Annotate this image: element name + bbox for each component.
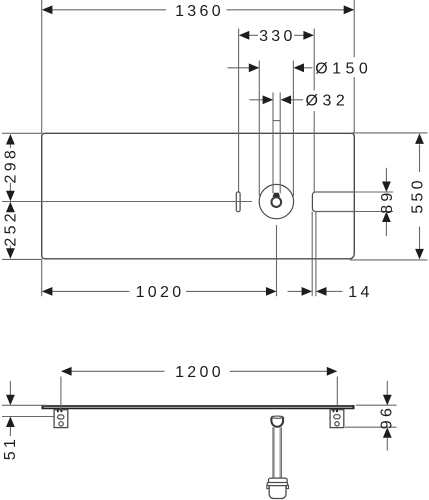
trap flange (267, 483, 287, 486)
dimension 89 extension top (315, 191, 393, 193)
console plate left tip (42, 405, 44, 409)
drain outlet rim (271, 416, 283, 418)
dimension 1360 extension right (353, 0, 355, 57)
dimension 330 arrow right (303, 31, 314, 40)
wall bracket right (330, 410, 344, 428)
console plate (42, 406, 353, 408)
dimension 51 extension top (2, 404, 47, 406)
dimension 1360 arrow right (344, 5, 355, 14)
svg-text:1200: 1200 (175, 364, 224, 381)
extension line bottom-left (2, 258, 42, 260)
dimension 51 extension bottom (2, 416, 54, 418)
trap slip nut (268, 478, 287, 483)
extension line top-right (352, 132, 428, 134)
svg-text:Ø32: Ø32 (306, 93, 350, 110)
trap ear right (286, 485, 288, 488)
dimension 252 label (2, 210, 19, 247)
inner partition line above slot (313, 29, 315, 91)
dimension 298 label (2, 147, 19, 184)
dimension 1020 arrow left (42, 287, 53, 296)
dimension 550 label (410, 177, 427, 214)
svg-text:96: 96 (378, 405, 395, 429)
svg-text:1020: 1020 (136, 284, 185, 301)
dimension 550 arrow top (415, 133, 424, 144)
dimension 330 extension left (238, 29, 240, 192)
basin top-view outline (42, 133, 355, 258)
dimension 89 tail bottom (385, 222, 387, 236)
dimension 89 label (379, 189, 396, 213)
dimension 550 line upper (419, 145, 421, 173)
svg-text:51: 51 (2, 436, 19, 460)
dimension 96 extension bottom (345, 426, 397, 428)
dimension 51 tail bottom (9, 427, 11, 436)
dimension 252 line lower (9, 246, 11, 249)
bracket right round hole (335, 422, 339, 426)
dimension D150 arrow left (249, 63, 259, 72)
dimension 1200 extension right (336, 377, 338, 406)
dimension 1200 extension left (60, 377, 62, 410)
svg-text:298: 298 (2, 147, 19, 184)
dimension 89 arrow top (382, 182, 391, 193)
wall bracket left (54, 410, 68, 428)
extension line top-left (2, 132, 42, 134)
dimension 89 extension bottom (315, 211, 393, 213)
overflow channel left wall (272, 93, 274, 194)
svg-text:550: 550 (410, 177, 427, 214)
bracket left screws (57, 409, 59, 412)
dimension 96 arrow top (383, 395, 392, 406)
dimension 550 arrow bottom (415, 249, 424, 260)
dimension 1360 extension left (41, 0, 43, 133)
svg-text:330: 330 (259, 28, 296, 45)
bracket left oblong hole (58, 415, 64, 419)
bracket right screws (333, 409, 335, 412)
bracket right oblong hole (334, 415, 340, 419)
dimension 14 arrow left (302, 287, 313, 296)
dimension 252 arrow bottom (6, 248, 15, 258)
dimension D150 extension left (258, 61, 260, 197)
dimension 550 line lower (419, 227, 421, 250)
dimension 96 label (378, 405, 395, 429)
dimension 1200 arrow right (327, 367, 338, 376)
dimension 89 tail top (385, 168, 387, 182)
dimension D150 tail left (228, 67, 250, 69)
overflow notch top (273, 120, 280, 122)
dimension 1020 arrow right (266, 287, 277, 296)
bracket left round hole (59, 422, 63, 426)
inner partition line pair below slot (right) (315, 212, 317, 297)
dimension 96 tail top (386, 381, 388, 396)
tail pipe highlight lines (274, 427, 276, 478)
dimension D32 tail right (291, 99, 303, 101)
dimension 1020 line (43, 290, 130, 292)
dimension 96 tail bottom (386, 438, 388, 451)
dimension 298/252 double arrow middle (6, 191, 15, 202)
overflow channel right wall (279, 93, 281, 194)
dimension D32 arrow left (263, 95, 274, 104)
dimension 1020 extension right (drain centre) (276, 225, 278, 296)
dimension D150 arrow right (294, 63, 305, 72)
shelf recess slot (312, 192, 354, 212)
svg-text:1360: 1360 (175, 3, 224, 20)
dimension 96 extension top (356, 404, 397, 406)
dimension 51 label (2, 436, 19, 460)
svg-text:14: 14 (348, 284, 372, 301)
drain outlet cup (271, 417, 283, 427)
dimension 14 tail right (327, 290, 343, 292)
dimension D32 tail left (249, 99, 264, 101)
dimension D150 extension right (292, 61, 294, 197)
dimension 1200 arrow left (61, 367, 72, 376)
extension line bottom-right (350, 259, 428, 261)
svg-text:89: 89 (379, 189, 396, 213)
dimension 1360 arrow left (42, 5, 53, 14)
dimension 89 arrow bottom (382, 212, 391, 223)
dimension 298/252 line upper (9, 144, 11, 148)
svg-text:252: 252 (2, 210, 19, 247)
dimension 14 tail left (288, 290, 302, 292)
trap ear left (267, 485, 269, 488)
dimension 330 line (249, 34, 258, 36)
dimension 14 arrow right (316, 287, 327, 296)
dimension 330 arrow left (239, 31, 250, 40)
dimension 298 arrow top (6, 134, 15, 145)
drain circle Ø150 (259, 184, 293, 218)
trap cup (269, 486, 286, 499)
dimension 51 arrow top (6, 395, 15, 406)
drain ring Ø32 (271, 197, 281, 207)
dimension 96 arrow bottom (383, 427, 392, 438)
dimension 51 tail top (9, 381, 11, 396)
tail pipe right wall (280, 427, 282, 478)
dimension 51 arrow bottom (6, 417, 15, 428)
tail pipe left wall (272, 427, 274, 478)
dimension 1020 extension left (41, 259, 43, 296)
faucet hole slot (236, 192, 240, 212)
centre reference line (2, 201, 252, 203)
inner partition line pair below slot (left) (311, 212, 313, 297)
overflow spout wedge (272, 193, 280, 197)
console plate right tip (352, 405, 354, 409)
svg-text:Ø150: Ø150 (315, 60, 372, 77)
dimension 1200 line (62, 370, 165, 372)
dimension 1360 line (43, 9, 166, 11)
dimension D150 tail right (304, 67, 313, 69)
dimension D32 arrow right (281, 95, 292, 104)
